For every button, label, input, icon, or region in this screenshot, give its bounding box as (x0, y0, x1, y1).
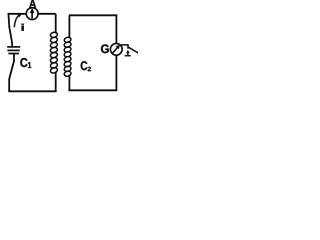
label C2 (81, 61, 88, 70)
capacitor C1 (7, 47, 20, 54)
switch key: lever (128, 47, 139, 53)
wire: left loop left lower (capacitor to corner) (9, 54, 14, 92)
wire: left loop right lower (55, 72, 57, 92)
switch key: contact arrow (127, 52, 129, 56)
wire: left loop bottom (8, 90, 56, 92)
inductor coil L2 (right coil) (64, 37, 72, 77)
wire: right loop left upper (68, 15, 70, 38)
wire: right loop right (115, 15, 117, 90)
current direction arrow i (14, 16, 18, 28)
switch key: top link (121, 45, 128, 49)
label G (101, 44, 109, 53)
galvanometer needle (113, 48, 118, 53)
ammeter A (26, 8, 38, 20)
label A (29, 0, 36, 8)
wire: right loop top (69, 14, 117, 16)
ammeter needle (31, 12, 33, 19)
label i (22, 24, 24, 31)
galvanometer G (110, 43, 122, 55)
label C1 (20, 58, 27, 67)
wire: left loop top (8, 13, 56, 15)
wire: left loop right upper (55, 14, 57, 34)
switch key: contact base (125, 55, 131, 57)
wire: right loop left lower (68, 75, 70, 91)
wire: left loop left upper (corner to capacitor) (8, 13, 12, 46)
wire: right loop bottom (69, 89, 118, 91)
inductor coil L1 (left coil) (50, 31, 58, 73)
